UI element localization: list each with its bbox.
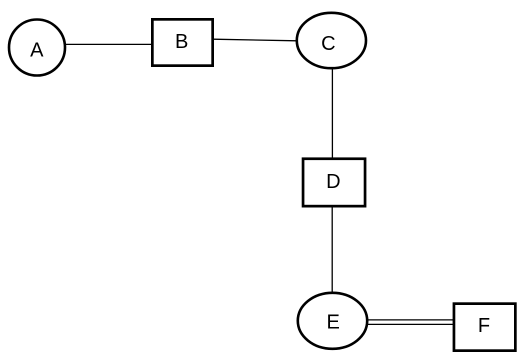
svg-text:A: A xyxy=(30,39,44,61)
wire D-E xyxy=(331,206,333,292)
svg-text:C: C xyxy=(321,33,335,55)
svg-text:B: B xyxy=(175,31,188,53)
node E xyxy=(298,293,367,349)
svg-text:D: D xyxy=(326,171,340,193)
node A xyxy=(9,20,65,76)
node B xyxy=(152,19,212,65)
wire C-D xyxy=(331,69,333,159)
wire B-C xyxy=(213,39,297,41)
svg-text:E: E xyxy=(327,312,340,334)
node F xyxy=(454,304,515,351)
node D xyxy=(303,159,365,206)
wire A-B xyxy=(64,43,152,45)
wire E-F double line xyxy=(367,320,454,325)
svg-text:F: F xyxy=(478,315,490,337)
node C xyxy=(297,13,366,68)
